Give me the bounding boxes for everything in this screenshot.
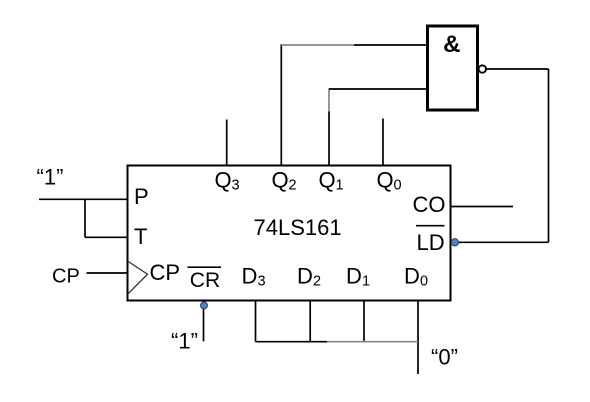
wire D2 vertical bbox=[309, 302, 311, 342]
wire D1 vertical bbox=[363, 302, 365, 342]
svg-text:&: & bbox=[443, 31, 460, 58]
pin label Q0 bbox=[377, 168, 402, 194]
wire feedback to LD bbox=[455, 241, 549, 243]
svg-text:Q: Q bbox=[319, 168, 336, 193]
wire Q1 to nand bbox=[329, 88, 426, 90]
svg-text:D: D bbox=[404, 264, 420, 289]
svg-text:P: P bbox=[134, 184, 149, 209]
wire Q2 vertical bbox=[280, 44, 282, 164]
wire nand output horizontal bbox=[486, 68, 548, 70]
wire D tie horizontal (gray part) bbox=[327, 341, 418, 343]
pin label D2 bbox=[297, 264, 321, 290]
svg-text:“1”: “1” bbox=[37, 165, 64, 190]
wire Q0 stub bbox=[382, 119, 384, 165]
svg-text:“0”: “0” bbox=[431, 345, 458, 370]
svg-text:D: D bbox=[346, 264, 362, 289]
wire D3 vertical bbox=[255, 302, 257, 342]
wire P input bbox=[39, 198, 127, 200]
wire Q2 to nand (black part) bbox=[354, 44, 426, 46]
wire D tie horizontal (black part) bbox=[256, 341, 328, 343]
svg-text:D: D bbox=[297, 264, 313, 289]
clock edge triangle bbox=[128, 261, 148, 294]
svg-text:1: 1 bbox=[336, 178, 344, 194]
wire feedback vertical bbox=[548, 69, 550, 242]
nand gate U2 body bbox=[428, 26, 478, 110]
svg-text:2: 2 bbox=[289, 178, 297, 194]
svg-text:Q: Q bbox=[377, 168, 394, 193]
pin label D1 bbox=[346, 264, 370, 290]
svg-text:T: T bbox=[134, 224, 147, 249]
wire CR input vertical bbox=[203, 302, 205, 342]
svg-text:“1”: “1” bbox=[171, 329, 198, 354]
svg-text:2: 2 bbox=[313, 274, 321, 290]
pin label Q2 bbox=[272, 168, 297, 194]
svg-text:CO: CO bbox=[413, 192, 446, 217]
svg-text:CP: CP bbox=[52, 266, 80, 288]
svg-text:D: D bbox=[242, 264, 258, 289]
wire CO output stub bbox=[452, 206, 514, 208]
wire P-T branch vertical bbox=[84, 199, 86, 237]
pin label D3 bbox=[242, 264, 266, 290]
nand gate output bubble bbox=[479, 65, 486, 72]
node CR junction (blue) bbox=[201, 302, 208, 309]
svg-text:3: 3 bbox=[258, 274, 266, 290]
svg-text:1: 1 bbox=[362, 274, 370, 290]
svg-text:74LS161: 74LS161 bbox=[254, 215, 342, 240]
wire Q2 to nand (gray part) bbox=[281, 44, 354, 46]
svg-text:0: 0 bbox=[420, 274, 428, 290]
wire Q3 stub bbox=[226, 120, 228, 165]
svg-text:3: 3 bbox=[232, 178, 240, 194]
pin label CR with overline bbox=[188, 267, 222, 292]
pin label LD with overline bbox=[416, 226, 445, 255]
counter U1 74LS161 body bbox=[128, 166, 451, 301]
wire T input bbox=[85, 236, 127, 238]
wire D0 vertical bbox=[417, 302, 419, 375]
svg-text:CP: CP bbox=[150, 260, 181, 285]
svg-text:CR: CR bbox=[190, 269, 220, 292]
pin label Q3 bbox=[215, 168, 240, 194]
pin label Q1 bbox=[319, 168, 344, 194]
svg-text:LD: LD bbox=[417, 230, 445, 255]
wire Q1 vertical (black bottom) bbox=[328, 112, 330, 165]
svg-text:Q: Q bbox=[272, 168, 289, 193]
wire Q1 vertical (gray top) bbox=[328, 88, 330, 111]
wire CP input bbox=[87, 272, 127, 274]
svg-text:0: 0 bbox=[394, 178, 402, 194]
node LD junction (blue) bbox=[451, 239, 458, 246]
pin label D0 bbox=[404, 264, 428, 290]
svg-text:Q: Q bbox=[215, 168, 232, 193]
